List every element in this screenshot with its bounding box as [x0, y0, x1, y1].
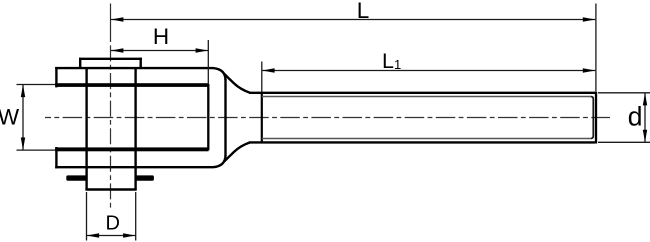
part centerline (horizontal) — [45, 117, 610, 119]
thread root lines — [262, 97, 591, 139]
svg-text:d: d — [628, 102, 643, 132]
shank end face — [595, 92, 597, 144]
svg-text:L: L — [357, 0, 370, 23]
dimension D — [87, 192, 136, 241]
dimension H — [111, 24, 208, 53]
dimension L — [111, 0, 596, 91]
dimension L1 — [262, 49, 596, 92]
pin centerline (vertical) — [110, 4, 112, 209]
slot inner faces — [55, 83, 208, 151]
dimension W — [0, 85, 56, 151]
fork jaw outline — [55, 67, 225, 168]
cotter pin ends — [66, 175, 154, 180]
end chamfer — [591, 97, 593, 139]
slot base / H extension line — [207, 40, 209, 150]
boss tangent edge — [224, 79, 226, 156]
thread start line — [261, 93, 263, 143]
svg-text:D: D — [105, 212, 119, 234]
svg-text:H: H — [153, 24, 169, 49]
dimension d — [598, 93, 650, 143]
clevis pin head — [79, 58, 142, 68]
threaded shank edges — [249, 93, 595, 143]
clevis pin body — [85, 68, 136, 189]
svg-text:W: W — [0, 104, 20, 129]
neck cone curves — [224, 74, 250, 162]
